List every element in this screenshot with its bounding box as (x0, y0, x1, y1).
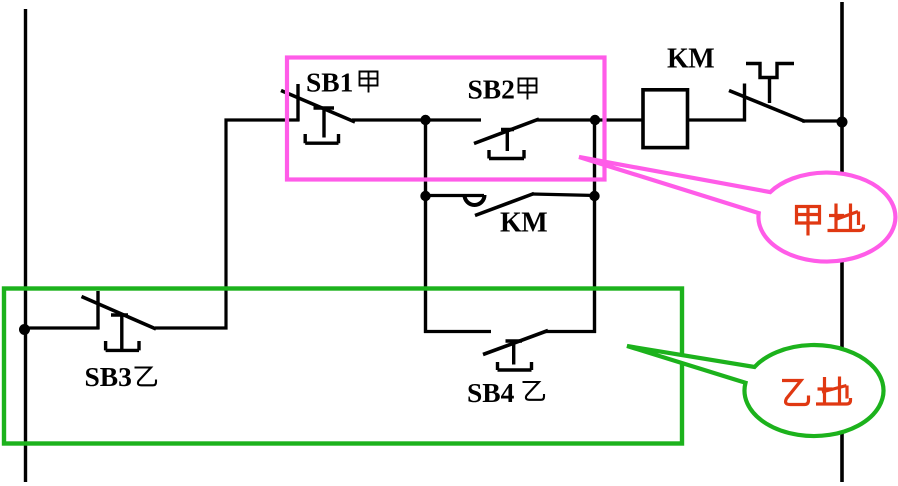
label jia (甲) for SB1 (360, 71, 378, 93)
wire riser from node A down to SB4 (424, 120, 427, 333)
svg-text:KM: KM (667, 44, 714, 75)
right power rail (840, 2, 844, 482)
node A junction dot (420, 115, 430, 125)
wire riser left branch (x=226) (155, 120, 299, 328)
pushbutton SB3 plunger (106, 315, 139, 350)
wire SB4 right terminal (545, 330, 596, 333)
svg-text:SB2: SB2 (468, 74, 515, 105)
junction dot on left rail (19, 324, 30, 335)
pushbutton SB3 blade (82, 297, 157, 330)
wire SB4 left terminal (424, 330, 491, 333)
label jia (甲) for SB2 (519, 78, 537, 100)
region box jiadi (pink) (287, 58, 605, 180)
pushbutton SB1 terminal stub (296, 84, 299, 122)
label yi (乙) for SB3 (135, 368, 157, 386)
node B junction dot (590, 115, 600, 125)
wire left rail to SB3 (24, 326, 99, 329)
svg-text:SB1: SB1 (306, 67, 353, 98)
wire coil to FR contact (687, 118, 746, 121)
wire SB1 to node A (352, 118, 427, 121)
label yi-di (乙地) red (782, 377, 851, 405)
wire KM contact to node E (532, 194, 596, 196)
label yi (乙) for SB4 (523, 382, 545, 400)
thermal relay FR terminal stub (743, 84, 746, 122)
thermal relay FR blade (729, 91, 805, 122)
KM auxiliary contact blade (475, 194, 534, 216)
contactor coil KM (643, 90, 688, 148)
wire riser from node B down to SB4 (593, 120, 596, 333)
pushbutton SB2 blade (474, 119, 539, 144)
pushbutton SB1 plunger (305, 108, 338, 143)
pushbutton SB3 terminal stub (96, 291, 99, 330)
left power rail (24, 9, 27, 482)
thermal relay FR plunger tick (768, 76, 771, 103)
label jia-di (甲地) red (797, 204, 864, 236)
wire node A to SB2 (425, 118, 481, 121)
pushbutton SB2 plunger (489, 130, 524, 159)
wire node B to coil KM (595, 118, 643, 121)
callout ellipse yidi (green) (627, 345, 883, 436)
svg-text:SB4: SB4 (467, 377, 515, 408)
pushbutton SB1 blade (281, 91, 355, 123)
node E junction dot (589, 191, 599, 201)
wire SB2 to node B (536, 118, 597, 121)
node C junction dot on right rail (837, 117, 848, 128)
wire FR to right rail (802, 119, 843, 122)
region box yidi (green) (4, 289, 682, 444)
node D junction dot (420, 191, 430, 201)
svg-text:SB3: SB3 (85, 361, 132, 392)
KM auxiliary contact hook (465, 195, 485, 205)
wire node D to KM contact (425, 194, 484, 197)
svg-text:KM: KM (500, 208, 547, 239)
thermal relay FR heater bracket (746, 64, 794, 78)
callout ellipse jiadi (pink) (579, 157, 895, 262)
pushbutton SB4 blade (483, 331, 548, 355)
pushbutton SB4 plunger (498, 341, 532, 370)
